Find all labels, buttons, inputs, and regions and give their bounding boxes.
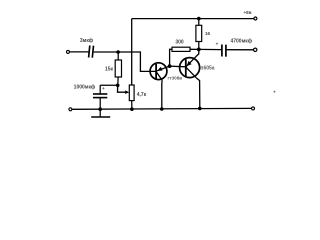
- wire C2 top lead: [99, 85, 101, 94]
- wire 300 right lead: [190, 48, 199, 50]
- wire T1 collector down to bottom rail: [161, 80, 163, 109]
- potentiometer 4,7к: [129, 85, 134, 101]
- wire C2 bottom lead: [99, 98, 101, 110]
- input terminal top-left: [67, 50, 70, 53]
- arrow VT2 emitter (pnp): [187, 61, 192, 66]
- svg-text:16: 16: [205, 31, 211, 36]
- node 16 / 300 / C3 / T2 emitter: [197, 48, 201, 52]
- svg-text:300: 300: [175, 40, 184, 46]
- node input/15к junction: [116, 50, 120, 54]
- wiper arrow to potentiometer: [118, 85, 127, 92]
- node top rail / 16 resistor: [197, 17, 201, 21]
- wire +8в rail down to potentiometer top (crosses input line): [131, 19, 133, 85]
- svg-text:4,7к: 4,7к: [137, 92, 147, 98]
- wire T2 collector down to bottom rail: [196, 78, 200, 108]
- svg-text:п605а: п605а: [200, 66, 214, 72]
- wire +8в top rail: [132, 18, 256, 20]
- svg-text:3мкф: 3мкф: [80, 37, 94, 44]
- capacitor 4700мкф: [222, 45, 226, 57]
- bottom rail terminal right: [252, 107, 255, 110]
- wire 16 top lead: [198, 19, 200, 26]
- wire 15к top lead: [117, 52, 119, 60]
- node T1 emitter / T2 base / 300: [168, 64, 172, 68]
- wire junction to C2 top: [100, 84, 118, 86]
- node potentiometer/bottom rail: [130, 107, 134, 111]
- node C2/ground on bottom rail: [98, 107, 102, 111]
- wire 16 bottom lead: [198, 42, 200, 50]
- svg-text:+: +: [273, 90, 276, 95]
- wire bottom rail: [72, 107, 251, 110]
- wire potentiometer bottom lead: [131, 101, 133, 110]
- svg-text:+: +: [102, 86, 105, 91]
- wire T2 emitter up to output node: [196, 49, 199, 57]
- bottom rail terminal left: [69, 108, 72, 111]
- wire C1 to T1 base (input line): [94, 52, 157, 71]
- arrow VT1 emitter (pnp): [157, 67, 163, 71]
- svg-text:+8в: +8в: [243, 10, 251, 15]
- output terminal mid right: [254, 48, 257, 51]
- wire C3 to output terminal: [226, 49, 253, 51]
- svg-text:+: +: [216, 42, 219, 47]
- svg-text:гт308в: гт308в: [167, 76, 182, 81]
- transistor VT2 п605а: [180, 57, 200, 78]
- wire T2 base lead: [170, 65, 186, 68]
- svg-text:4700мкф: 4700мкф: [230, 38, 252, 45]
- resistor 16: [196, 25, 202, 41]
- resistor 15к: [115, 60, 121, 77]
- wire 15к bottom lead: [117, 77, 120, 85]
- node T2 collector / bottom rail: [198, 107, 202, 111]
- svg-text:15к: 15к: [105, 67, 114, 73]
- wire 300 left lead down to T1 emitter node: [170, 49, 172, 66]
- node T1 collector / bottom rail: [160, 107, 164, 111]
- ground: [99, 109, 101, 117]
- capacitor 1000мкф: [93, 94, 107, 98]
- svg-text:1000мкф: 1000мкф: [74, 84, 96, 91]
- terminal +8в: [254, 17, 257, 20]
- wire input terminal to C1: [70, 51, 89, 53]
- wire output node to C3: [199, 48, 222, 50]
- node 15к/C2/wiper junction: [116, 84, 120, 88]
- transistor VT1 гт308в: [150, 63, 170, 80]
- resistor 300: [172, 47, 190, 51]
- capacitor 3мкф: [89, 46, 94, 58]
